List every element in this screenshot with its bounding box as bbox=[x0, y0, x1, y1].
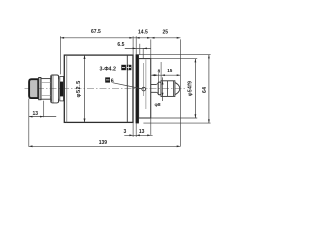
ext stub 143.2 bbox=[142, 48, 144, 58]
connector collar bbox=[41, 79, 51, 100]
body left seam bbox=[66, 55, 68, 122]
ext line 180.4 bbox=[179, 39, 181, 146]
dim phi52.5 line bbox=[84, 55, 86, 122]
ear inner line bbox=[52, 75, 54, 103]
hole callout line2 glyph shen bbox=[105, 77, 110, 82]
output shaft bbox=[151, 84, 157, 92]
ext line 150.8 full bbox=[150, 39, 152, 134]
flange disc (dark) bbox=[136, 55, 139, 124]
knob body bbox=[161, 81, 175, 97]
row1 arrows bbox=[60, 37, 180, 39]
shaft neck bbox=[156, 83, 158, 94]
connector end cap bbox=[29, 79, 38, 98]
svg-text:64: 64 bbox=[202, 87, 208, 93]
dim 8/15 line bbox=[151, 74, 180, 76]
knob dome bbox=[175, 83, 180, 95]
ext top right flange bbox=[139, 54, 211, 56]
svg-text:14.5: 14.5 bbox=[138, 29, 148, 35]
dim 6.5 line bbox=[125, 47, 151, 49]
dim phi54f9 line bbox=[194, 59, 196, 118]
ext 136.2 bottom bbox=[135, 123, 137, 136]
dim 13 left arrows bbox=[29, 116, 44, 118]
ext bottom right flange bbox=[143, 122, 210, 124]
hole callout glyph jun bbox=[121, 65, 131, 70]
dim 139 arrows bbox=[29, 145, 181, 147]
svg-text:6.5: 6.5 bbox=[117, 42, 124, 48]
collar inner lines bbox=[41, 82, 50, 95]
flange ear block top tab bbox=[51, 75, 59, 79]
svg-text:3: 3 bbox=[124, 129, 127, 135]
ear right edge bbox=[58, 76, 60, 103]
svg-text:3-Φ4.2: 3-Φ4.2 bbox=[100, 66, 116, 72]
ext line 136.2 top bbox=[135, 36, 137, 54]
clamp ring dark band bbox=[60, 82, 63, 97]
dim row1 line bbox=[60, 37, 180, 39]
ext line 60.4 bbox=[59, 36, 61, 74]
mounting hole circle bbox=[142, 87, 146, 91]
collar right edge line bbox=[51, 76, 53, 102]
svg-text:φ52.5: φ52.5 bbox=[76, 80, 82, 97]
svg-text:15: 15 bbox=[167, 68, 173, 73]
dim 139 line bbox=[29, 145, 181, 147]
knob inner lines bbox=[168, 81, 174, 97]
svg-text:13: 13 bbox=[139, 129, 145, 135]
svg-text:25: 25 bbox=[163, 29, 169, 35]
body right seam bbox=[126, 55, 128, 122]
ext stub 139.8 bbox=[139, 44, 141, 55]
svg-text:139: 139 bbox=[99, 140, 108, 146]
flange ear block bottom tab bbox=[51, 99, 59, 103]
ext top right spigot bbox=[151, 58, 197, 60]
dim 3/13 bottom line bbox=[124, 134, 152, 136]
dim 8/15 arrows bbox=[151, 74, 181, 76]
spigot inner lines bbox=[143, 60, 146, 110]
clamp ring outline bbox=[60, 76, 64, 101]
dim 13 left line bbox=[29, 116, 56, 118]
cap washer bbox=[39, 78, 41, 100]
svg-text:6: 6 bbox=[111, 79, 114, 85]
knob dia dim line bbox=[162, 77, 164, 101]
motor body bbox=[64, 55, 133, 122]
centerline bbox=[25, 88, 186, 90]
ext 133.1 bottom bbox=[132, 123, 134, 137]
dim 64 line bbox=[208, 55, 210, 123]
shaft collar bbox=[158, 82, 161, 95]
spigot bbox=[139, 59, 151, 118]
svg-text:φ54f9: φ54f9 bbox=[188, 81, 194, 96]
ext bottom right spigot bbox=[151, 117, 197, 119]
leader line bbox=[113, 83, 142, 89]
svg-text:8: 8 bbox=[158, 68, 161, 73]
svg-text:13: 13 bbox=[33, 111, 39, 117]
ext line 133.1 top bbox=[132, 36, 134, 55]
dim 6.5 arrows bbox=[133, 48, 147, 50]
ext 43.7 left bbox=[43, 101, 45, 118]
ext 28.8 left bbox=[28, 99, 30, 147]
svg-text:67.5: 67.5 bbox=[91, 29, 101, 35]
svg-text:φ8: φ8 bbox=[154, 102, 160, 108]
ext stubs for 8/15 bbox=[158, 62, 161, 82]
dim 3/13 arrows bbox=[129, 134, 151, 136]
